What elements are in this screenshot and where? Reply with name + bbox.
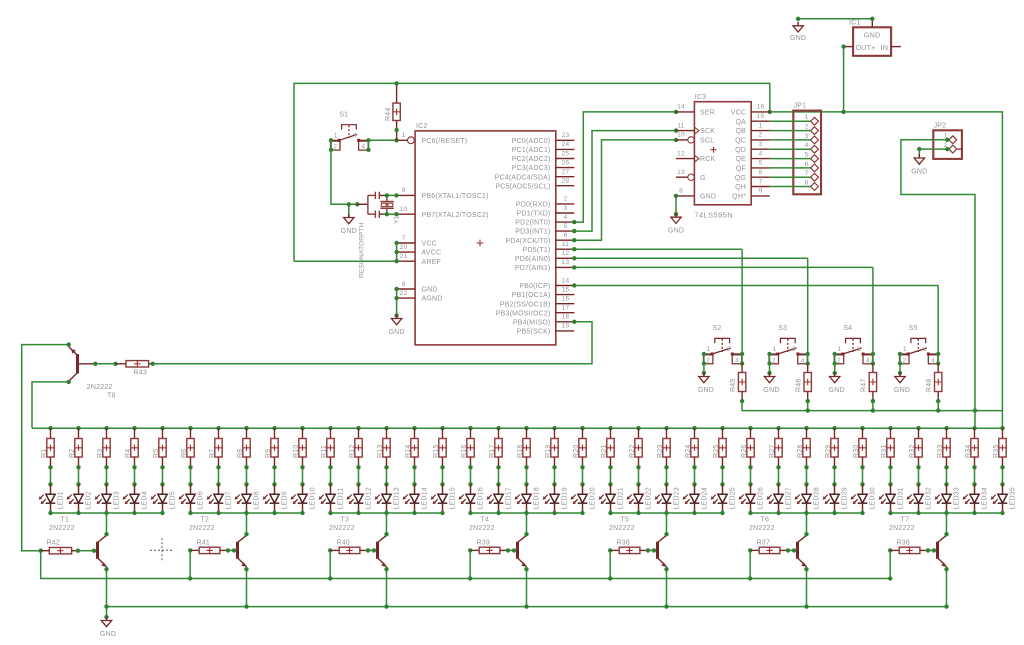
LED LED11 <box>330 484 332 494</box>
svg-text:R4: R4 <box>125 449 132 458</box>
wire R26 to LED26 <box>750 467 752 484</box>
svg-text:IN: IN <box>881 43 889 52</box>
wire PD2 to IC3 SER <box>574 112 676 222</box>
wire R6 to LED6 <box>190 467 192 484</box>
svg-text:R24: R24 <box>685 445 692 458</box>
svg-text:74LS595N: 74LS595N <box>694 211 733 220</box>
svg-text:R21: R21 <box>601 445 608 458</box>
transistor T8 <box>76 354 79 374</box>
wire VCC rail drop to LED rail <box>1001 411 1003 429</box>
junction LED4 cathode <box>132 511 136 515</box>
wire T8 emitter to base-feed net <box>22 345 69 551</box>
svg-text:7: 7 <box>402 235 406 242</box>
wire PD5 to S2 <box>574 248 742 250</box>
svg-text:6: 6 <box>805 161 809 168</box>
svg-text:PC5(ADC5/SCL): PC5(ADC5/SCL) <box>495 183 550 190</box>
svg-text:14: 14 <box>677 104 685 111</box>
svg-text:2N2222: 2N2222 <box>87 384 113 391</box>
connector JP1 body <box>793 111 821 195</box>
resistor R41 <box>188 548 192 552</box>
pin IC3 RCK (12) <box>676 158 694 160</box>
svg-text:PD4(XCK/T0): PD4(XCK/T0) <box>506 238 551 245</box>
ground GND at bottom <box>106 607 108 617</box>
junction LED19 cathode <box>552 511 556 515</box>
transistor T7 <box>936 542 939 559</box>
wire cathode rail group 6 <box>751 512 863 514</box>
svg-text:PC4(ADC4/SDA): PC4(ADC4/SDA) <box>495 174 551 181</box>
wire R30 to LED30 <box>862 467 864 484</box>
pin IC3 SER (14) <box>676 111 694 113</box>
svg-text:R23: R23 <box>657 445 664 458</box>
transistor T3 <box>376 542 379 559</box>
svg-text:QA: QA <box>735 119 746 126</box>
LED LED3 <box>106 484 108 494</box>
resistor R35 <box>1000 426 1004 430</box>
LED LED34 <box>974 484 976 494</box>
pin IC2 VCC (7) <box>397 242 415 244</box>
LED LED23 <box>666 484 668 494</box>
junction IC1 top <box>870 17 874 21</box>
junction LED3 cathode <box>104 511 108 515</box>
svg-text:23: 23 <box>562 132 570 139</box>
LED LED9 <box>274 484 276 494</box>
svg-text:QH: QH <box>735 184 746 191</box>
wire R34 to LED34 <box>974 467 976 484</box>
microcontroller IC2 body <box>415 131 556 345</box>
svg-text:17: 17 <box>562 305 570 312</box>
svg-text:R47: R47 <box>861 379 868 392</box>
svg-text:7: 7 <box>759 178 763 185</box>
LED LED12 <box>358 484 360 494</box>
pin IC3 QH (7) <box>751 186 770 188</box>
svg-text:Y1: Y1 <box>394 215 401 224</box>
junction LED29 cathode <box>832 511 836 515</box>
LED LED5 <box>162 484 164 494</box>
junction LED26 cathode <box>748 511 752 515</box>
svg-text:RCK: RCK <box>700 156 716 163</box>
wire VCC top rail from S1 area to IC3 <box>294 83 770 261</box>
wire R14 to LED14 <box>414 467 416 484</box>
resonator Y1 <box>357 203 368 205</box>
junction LED30 cathode <box>860 511 864 515</box>
pin IC2 AVCC (20) <box>397 251 415 253</box>
resistor R6 <box>188 426 192 430</box>
svg-text:4: 4 <box>866 358 870 364</box>
transistor T6 <box>796 542 799 559</box>
svg-text:2: 2 <box>903 358 907 364</box>
svg-text:2N2222: 2N2222 <box>609 525 635 532</box>
wire R36 to base-feed rail <box>889 550 891 578</box>
svg-text:5: 5 <box>805 152 809 159</box>
LED LED22 <box>638 484 640 494</box>
svg-text:IC3: IC3 <box>695 94 707 101</box>
junction LED35 cathode <box>1000 511 1004 515</box>
pin IC1 GND top <box>871 19 873 28</box>
resistor R44 <box>396 83 398 103</box>
LED LED35 <box>1002 484 1004 494</box>
resistor R39 <box>468 548 472 552</box>
svg-text:4: 4 <box>801 358 805 364</box>
svg-text:LED1: LED1 <box>58 491 65 509</box>
svg-text:6: 6 <box>759 169 763 176</box>
pin IC2 PC6(/RESET) (1) <box>397 139 408 141</box>
ground GND below IC3 <box>675 196 677 214</box>
resistor R2 <box>76 426 80 430</box>
resistor R20 <box>580 426 584 430</box>
svg-text:15: 15 <box>757 113 765 120</box>
svg-text:S2: S2 <box>713 325 722 332</box>
pin IC3 QH* stub end <box>769 195 771 197</box>
svg-text:2: 2 <box>772 358 776 364</box>
pushbutton S2 <box>715 338 730 343</box>
svg-text:LED18: LED18 <box>534 487 541 509</box>
junction LED23 cathode <box>664 511 668 515</box>
svg-text:10: 10 <box>677 132 685 139</box>
LED LED32 <box>918 484 920 494</box>
svg-text:2: 2 <box>805 124 809 131</box>
junction LED20 cathode <box>580 511 584 515</box>
wire R3 to LED3 <box>106 467 108 484</box>
junction R47 bottom <box>871 399 875 403</box>
ground GND at S4 <box>834 373 836 377</box>
svg-text:R48: R48 <box>926 379 933 392</box>
svg-text:12: 12 <box>562 250 570 257</box>
wire IC1 OUT down to VCC rail <box>843 47 845 112</box>
svg-text:SCK: SCK <box>700 128 715 135</box>
LED LED6 <box>190 484 192 494</box>
resistor R28 <box>804 426 808 430</box>
svg-text:PC0(ADC0): PC0(ADC0) <box>512 138 551 145</box>
junction R44 bottom <box>394 128 398 132</box>
wire T5 emitter to ground rail <box>666 567 668 607</box>
svg-text:R20: R20 <box>573 445 580 458</box>
wire cathode rail group 4 <box>471 512 583 514</box>
pin IC2 PD3(INT1) (5) <box>556 230 575 232</box>
pin IC2 PC0(ADC0) (23) <box>556 139 575 141</box>
svg-text:1: 1 <box>838 346 842 353</box>
resistor R45 <box>741 364 743 373</box>
svg-text:4: 4 <box>931 358 935 364</box>
svg-text:AREF: AREF <box>422 259 441 266</box>
svg-text:R45: R45 <box>730 379 737 392</box>
junction LED11 cathode <box>328 511 332 515</box>
svg-text:R14: R14 <box>405 445 412 458</box>
wire R16 to LED16 <box>470 467 472 484</box>
svg-text:R27: R27 <box>769 445 776 458</box>
svg-text:R40: R40 <box>337 540 350 547</box>
svg-text:LED17: LED17 <box>506 487 513 509</box>
svg-text:LED5: LED5 <box>170 491 177 509</box>
pin JP1 5 <box>770 158 811 160</box>
pin IC3 QA (15) <box>751 120 770 122</box>
svg-text:LED11: LED11 <box>338 488 345 510</box>
resistor R19 <box>552 426 556 430</box>
svg-text:T3: T3 <box>341 517 350 524</box>
transistor T5 <box>656 542 659 559</box>
svg-text:PC6(/RESET): PC6(/RESET) <box>422 138 468 145</box>
pushbutton S4 <box>846 338 861 343</box>
svg-text:R6: R6 <box>181 449 188 458</box>
resistor R23 <box>664 426 668 430</box>
wire LED anode rail <box>32 427 1003 429</box>
svg-text:PB3(MOSI/OC2): PB3(MOSI/OC2) <box>496 310 551 317</box>
svg-text:PD2(INT0): PD2(INT0) <box>515 220 550 227</box>
svg-text:LED10: LED10 <box>310 487 317 509</box>
svg-text:PB5(SCK): PB5(SCK) <box>517 329 551 336</box>
pin IC2 PD7(AIN1) (13) <box>556 266 575 268</box>
svg-text:LED25: LED25 <box>730 487 737 509</box>
LED LED8 <box>246 484 248 494</box>
pin IC2 PD5(T1) (11) <box>556 248 575 250</box>
svg-text:PB4(MISO): PB4(MISO) <box>513 319 551 326</box>
svg-text:LED32: LED32 <box>926 487 933 509</box>
svg-text:GND: GND <box>790 35 806 42</box>
svg-text:R12: R12 <box>349 445 356 458</box>
svg-text:5: 5 <box>564 223 568 230</box>
junction pull rail <box>937 401 939 411</box>
pin JP1 4 <box>770 148 811 150</box>
LED LED1 <box>50 484 52 494</box>
svg-text:LED23: LED23 <box>674 487 681 509</box>
svg-text:IC2: IC2 <box>416 123 428 130</box>
svg-text:LED3: LED3 <box>114 491 121 509</box>
junction R45 bottom <box>740 399 744 403</box>
svg-text:R9: R9 <box>265 449 272 458</box>
svg-text:4: 4 <box>735 358 739 364</box>
svg-text:PD3(INT1): PD3(INT1) <box>515 229 550 236</box>
pin JP2 1 <box>949 136 957 144</box>
pin IC2 PC3(ADC3) (26) <box>556 167 575 169</box>
svg-text:R31: R31 <box>881 445 888 458</box>
pin IC2 PB3(MOSI/OC2) (17) <box>556 312 575 314</box>
svg-text:3: 3 <box>353 132 357 139</box>
pin IC2 PB1(OC1A) (15) <box>556 294 575 296</box>
wire AREF feed <box>294 260 397 262</box>
junction R46 bottom <box>806 399 810 403</box>
svg-text:R17: R17 <box>489 445 496 458</box>
svg-text:T4: T4 <box>481 517 490 524</box>
wire T4 emitter to ground rail <box>526 567 528 607</box>
svg-text:GND: GND <box>422 287 438 294</box>
junction LED32 cathode <box>916 511 920 515</box>
LED LED28 <box>806 484 808 494</box>
svg-text:R44: R44 <box>385 108 392 121</box>
LED LED4 <box>134 484 136 494</box>
svg-text:QC: QC <box>735 138 746 145</box>
svg-text:T1: T1 <box>61 517 70 524</box>
pin IC2 GND (8) <box>397 288 415 290</box>
LED LED20 <box>582 484 584 494</box>
svg-text:1: 1 <box>334 132 338 139</box>
svg-text:PC1(ADC1): PC1(ADC1) <box>512 147 551 154</box>
wire R37 to base-feed rail <box>749 550 751 578</box>
junction LED13 cathode <box>384 511 388 515</box>
transistor T1 <box>96 542 99 559</box>
svg-text:2N2222: 2N2222 <box>329 525 355 532</box>
svg-text:19: 19 <box>562 323 570 330</box>
svg-text:3: 3 <box>805 133 809 140</box>
svg-text:R13: R13 <box>377 445 384 458</box>
resistor R43 <box>93 362 97 366</box>
wire T6 collector to cathode rail <box>806 513 808 535</box>
resistor R10 <box>300 426 304 430</box>
pin IC2 PB2(SS/OC1B) (16) <box>556 303 575 305</box>
pin IC2 PD4(XCK/T0) (6) <box>556 239 575 241</box>
wire R35 to LED35 <box>1002 467 1004 484</box>
pin IC2 PD2(INT0) (4) <box>556 221 575 223</box>
pushbutton S1 <box>342 125 357 130</box>
resistor R32 <box>916 426 920 430</box>
wire T7 emitter to ground rail <box>946 567 948 607</box>
svg-text:R1: R1 <box>41 449 48 458</box>
svg-text:LED6: LED6 <box>198 491 205 509</box>
svg-text:IC1: IC1 <box>849 20 861 27</box>
pin IC2 PC4(ADC4/SDA) (27) <box>556 176 575 178</box>
svg-text:8: 8 <box>805 180 809 187</box>
svg-text:LED7: LED7 <box>226 491 233 509</box>
LED LED25 <box>722 484 724 494</box>
junction LED18 cathode <box>524 511 528 515</box>
LED LED7 <box>218 484 220 494</box>
svg-text:PB1(OC1A): PB1(OC1A) <box>512 292 551 299</box>
junction R44 top at VCC rail <box>394 81 398 85</box>
ground GND at S3 <box>769 373 771 377</box>
pin IC2 PC2(ADC2) (25) <box>556 158 575 160</box>
svg-text:GND: GND <box>894 387 910 394</box>
resistor R14 <box>412 426 416 430</box>
resistor R24 <box>692 426 696 430</box>
pin JP1 2 <box>770 130 811 132</box>
svg-text:LED24: LED24 <box>702 487 709 509</box>
pin IC2 PD0(RXD) (2) <box>556 203 575 205</box>
junction LED8 cathode <box>244 511 248 515</box>
svg-text:12: 12 <box>677 150 685 157</box>
junction LED33 cathode <box>944 511 948 515</box>
wire T3 emitter to ground rail <box>386 567 388 607</box>
junction reset/R44 <box>394 138 398 142</box>
wire R4 to LED4 <box>134 467 136 484</box>
svg-text:PC3(ADC3): PC3(ADC3) <box>512 165 551 172</box>
svg-text:2N2222: 2N2222 <box>889 525 915 532</box>
resistor R36 <box>888 548 892 552</box>
pin IC3 SCK (11) <box>676 130 694 132</box>
svg-text:R42: R42 <box>47 540 60 547</box>
svg-text:PD7(AIN1): PD7(AIN1) <box>515 265 551 272</box>
svg-text:PD5(T1): PD5(T1) <box>523 247 551 254</box>
wire R28 to LED28 <box>806 467 808 484</box>
resistor R11 <box>328 426 332 430</box>
transistor T4 <box>516 542 519 559</box>
resistor R12 <box>356 426 360 430</box>
pin IC3 QG (6) <box>751 176 770 178</box>
junction pull rail <box>872 401 874 411</box>
junction LED7 cathode <box>216 511 220 515</box>
svg-text:GND: GND <box>911 169 927 176</box>
wire ground rail <box>107 606 947 608</box>
junction LED9 cathode <box>272 511 276 515</box>
svg-text:T6: T6 <box>761 517 770 524</box>
svg-text:R36: R36 <box>897 540 910 547</box>
wire IC1 GND to ground <box>798 18 872 20</box>
svg-text:LED35: LED35 <box>1010 487 1017 509</box>
LED LED21 <box>610 484 612 494</box>
svg-text:1: 1 <box>402 132 406 139</box>
svg-text:9: 9 <box>402 187 406 194</box>
svg-text:LED33: LED33 <box>954 487 961 509</box>
wire cathode rail group 7 <box>891 512 1003 514</box>
svg-text:R7: R7 <box>209 449 216 458</box>
wire button pull rail <box>742 401 1002 411</box>
junction VCC at IC3 pin16 <box>768 110 772 114</box>
svg-text:27: 27 <box>562 169 570 176</box>
resistor R13 <box>384 426 388 430</box>
junction VCC rail at x843 <box>841 110 845 114</box>
svg-text:13: 13 <box>677 169 685 176</box>
svg-text:18: 18 <box>562 314 570 321</box>
junction LED12 cathode <box>356 511 360 515</box>
svg-text:T2: T2 <box>201 517 210 524</box>
wire base feed rail <box>41 551 891 579</box>
svg-text:9: 9 <box>759 188 763 195</box>
resistor R33 <box>944 426 948 430</box>
svg-text:LED26: LED26 <box>758 487 765 509</box>
svg-text:GND: GND <box>864 31 881 40</box>
resistor R1 <box>48 426 52 430</box>
resistor R7 <box>216 426 220 430</box>
svg-text:PD1(TXD): PD1(TXD) <box>517 211 551 218</box>
svg-text:22: 22 <box>400 290 408 297</box>
voltage regulator IC1 <box>853 27 891 56</box>
svg-text:T7: T7 <box>901 517 910 524</box>
wire S1 pin1 down to resonator gnd net <box>331 150 357 205</box>
ground GND at S2 <box>703 373 705 377</box>
svg-text:2: 2 <box>759 132 763 139</box>
wire cathode rail group 2 <box>191 512 303 514</box>
LED LED15 <box>442 484 444 494</box>
pin IC3 QE (4) <box>751 158 770 160</box>
svg-text:SCL: SCL <box>700 138 714 145</box>
resistor R8 <box>244 426 248 430</box>
wire R32 to LED32 <box>918 467 920 484</box>
svg-text:PC2(ADC2): PC2(ADC2) <box>512 156 551 163</box>
svg-text:4: 4 <box>805 142 809 149</box>
wire GND-AGND tie and ground <box>396 289 398 316</box>
pin IC1 OUT lead <box>844 46 854 48</box>
svg-text:2: 2 <box>334 145 338 151</box>
junction LED16 cathode <box>468 511 472 515</box>
svg-text:QD: QD <box>735 147 746 154</box>
svg-text:LED27: LED27 <box>786 487 793 509</box>
svg-text:28: 28 <box>562 178 570 185</box>
svg-text:R15: R15 <box>433 445 440 458</box>
svg-text:4: 4 <box>564 214 568 221</box>
svg-text:2N2222: 2N2222 <box>189 525 215 532</box>
svg-text:T8: T8 <box>107 393 116 400</box>
pin IC2 PB6(XTAL1/TOSC1) (9) <box>397 194 415 196</box>
svg-text:R46: R46 <box>796 379 803 392</box>
junction LED2 cathode <box>76 511 80 515</box>
pin JP1 1 <box>770 120 811 122</box>
svg-text:AGND: AGND <box>422 296 443 303</box>
pin IC2 AGND (22) <box>397 297 415 299</box>
resistor R15 <box>440 426 444 430</box>
pin IC2 AREF (21) <box>397 260 415 262</box>
svg-text:R30: R30 <box>853 445 860 458</box>
junction LED24 cathode <box>692 511 696 515</box>
svg-text:R11: R11 <box>321 445 328 458</box>
resistor R22 <box>636 426 640 430</box>
wire T8 collector to LED rail <box>32 382 69 428</box>
